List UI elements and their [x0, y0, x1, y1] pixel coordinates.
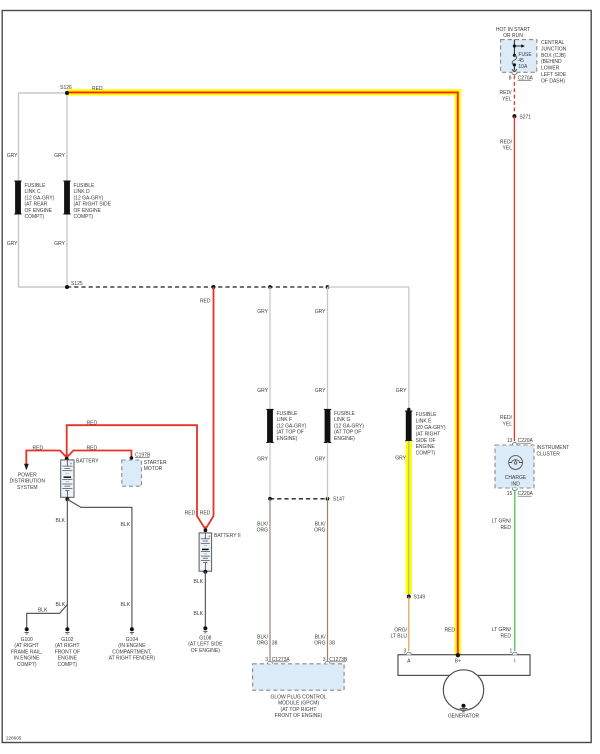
generator ground: [448, 704, 480, 720]
fusible link D: [63, 181, 111, 220]
svg-text:POWER: POWER: [18, 472, 37, 478]
svg-text:DISTRIBUTION: DISTRIBUTION: [10, 479, 46, 485]
wire RED: bus splice to Battery II: [200, 285, 216, 529]
charge indicator (CHARGE IND): [505, 456, 527, 488]
splice S126: [60, 85, 72, 95]
svg-text:G100: G100: [21, 637, 33, 643]
svg-text:S149: S149: [414, 595, 426, 601]
svg-text:JUNCTION: JUNCTION: [541, 46, 567, 52]
svg-text:ORG: ORG: [257, 528, 269, 534]
wire GRY: S126 loop through Fusible Link C: [7, 93, 67, 287]
svg-text:(AT RIGHT: (AT RIGHT: [55, 643, 80, 649]
svg-text:YEL: YEL: [503, 146, 513, 152]
svg-text:RED: RED: [185, 510, 196, 516]
svg-text:(20 GA-GRY): (20 GA-GRY): [416, 425, 446, 431]
svg-text:FUSE: FUSE: [518, 52, 532, 58]
svg-text:(AT TOP RIGHT: (AT TOP RIGHT: [281, 707, 317, 713]
svg-text:13: 13: [507, 438, 513, 444]
svg-text:BLK: BLK: [194, 579, 204, 585]
svg-text:SYSTEM: SYSTEM: [17, 485, 38, 491]
svg-text:(12 GA-GRY): (12 GA-GRY): [277, 423, 307, 429]
svg-text:G102: G102: [61, 637, 73, 643]
connector C1273B pin 3: [323, 657, 348, 663]
svg-text:HOT IN START: HOT IN START: [496, 27, 530, 33]
svg-text:RED: RED: [87, 420, 98, 426]
fusible link G: [324, 409, 364, 442]
svg-text:15: 15: [507, 491, 513, 497]
svg-text:BLK: BLK: [194, 611, 204, 617]
svg-text:GLOW PLUG CONTROL: GLOW PLUG CONTROL: [270, 694, 326, 700]
generator box: [398, 655, 530, 676]
svg-text:BLK: BLK: [56, 602, 66, 608]
battery B2 (Battery II): [199, 526, 241, 571]
wire RED: power distribution arrow to battery and starter C197B: [24, 445, 131, 470]
svg-text:RED: RED: [33, 445, 44, 451]
glow plug control module (GPCM): [253, 661, 345, 719]
connector C1273A pin 3: [265, 657, 290, 663]
svg-text:GENERATOR: GENERATOR: [448, 714, 480, 720]
svg-text:LT BLU: LT BLU: [391, 634, 408, 640]
svg-text:GRY: GRY: [396, 388, 407, 394]
svg-text:BLK/: BLK/: [257, 521, 268, 527]
svg-text:(AT TOP OF: (AT TOP OF: [277, 430, 304, 436]
wire BLK/ORG: S147 to GPCM C1273A: [257, 499, 278, 662]
wire GRY: link F to S147: [257, 443, 270, 499]
svg-text:GRY: GRY: [315, 457, 326, 463]
svg-text:LINK F: LINK F: [277, 417, 293, 423]
svg-text:BLK: BLK: [121, 522, 131, 528]
svg-text:GRY: GRY: [315, 309, 326, 315]
wire GRY: S126 to S125 through Fusible Link D: [54, 93, 67, 287]
svg-text:IND: IND: [511, 481, 520, 487]
svg-text:S125: S125: [71, 281, 83, 287]
svg-text:STARTER: STARTER: [144, 460, 167, 466]
wire RED/YEL: S271 to instrument cluster C220A: [500, 116, 514, 441]
svg-text:FUSIBLE: FUSIBLE: [334, 411, 356, 417]
svg-text:OF ENGINE: OF ENGINE: [25, 208, 53, 214]
connector C220A pin 15: [507, 488, 534, 497]
generator: [443, 670, 483, 710]
svg-text:SIDE OF: SIDE OF: [416, 438, 436, 444]
svg-text:B+: B+: [455, 659, 461, 665]
svg-text:LINK E: LINK E: [416, 419, 433, 425]
connector pin 3 at generator A: [404, 648, 412, 654]
svg-text:BOX (CJB): BOX (CJB): [541, 53, 566, 59]
ground G100: [11, 627, 42, 668]
battery B2 negative junction: [203, 570, 207, 574]
svg-text:LOWER: LOWER: [541, 66, 560, 72]
svg-text:RED: RED: [200, 298, 211, 304]
svg-text:8: 8: [509, 76, 512, 82]
svg-text:(BEHIND: (BEHIND: [541, 59, 562, 65]
wire GRY: bus to Fusible Link F: [257, 285, 272, 409]
connector pin 1 at generator I: [510, 648, 518, 654]
wire RED/YEL: C270A to S271 (dashed): [500, 76, 515, 117]
svg-text:FRONT OF: FRONT OF: [55, 649, 80, 655]
svg-text:(12 GA-GRY): (12 GA-GRY): [25, 195, 55, 201]
svg-text:FRAME RAIL,: FRAME RAIL,: [11, 649, 42, 655]
power distribution system: [10, 472, 46, 491]
svg-text:GRY: GRY: [257, 388, 268, 394]
generator B+ junction: [456, 653, 460, 657]
svg-text:GRY: GRY: [395, 456, 406, 462]
svg-text:OR RUN: OR RUN: [503, 33, 523, 39]
svg-text:CHARGE: CHARGE: [505, 475, 527, 481]
wire LT GRN/RED: instrument cluster to generator I: [492, 491, 515, 651]
svg-text:RED: RED: [444, 628, 455, 634]
fusible link E: [405, 411, 446, 457]
connector C197B: [130, 452, 151, 459]
fusible link C: [14, 181, 55, 220]
svg-text:S126: S126: [60, 85, 72, 91]
ground G108: [188, 626, 223, 654]
svg-text:ORG: ORG: [314, 528, 326, 534]
starter motor: [122, 460, 167, 486]
svg-text:LEFT SIDE: LEFT SIDE: [541, 72, 567, 78]
svg-text:ENGINE: ENGINE: [416, 444, 436, 450]
svg-text:RED: RED: [500, 525, 511, 531]
splice S149: [407, 595, 426, 601]
svg-text:(AT TOP OF: (AT TOP OF: [334, 430, 361, 436]
svg-text:BLK/: BLK/: [315, 634, 326, 640]
svg-text:FUSIBLE: FUSIBLE: [277, 411, 299, 417]
svg-text:YEL: YEL: [503, 421, 513, 427]
svg-text:I: I: [514, 659, 515, 665]
svg-text:OF DASH): OF DASH): [541, 78, 565, 84]
wire GRY: bus to Fusible Link G: [315, 285, 330, 409]
fuse F45 10A: [512, 40, 532, 72]
wire GRY: link G to S147: [315, 443, 328, 499]
svg-text:COMPARTMENT,: COMPARTMENT,: [112, 649, 152, 655]
svg-text:LT GRN/: LT GRN/: [492, 519, 512, 525]
svg-text:G104: G104: [126, 637, 138, 643]
ground G104: [109, 627, 156, 661]
svg-text:RED/: RED/: [500, 139, 513, 145]
svg-text:ENGINE: ENGINE: [58, 656, 78, 662]
battery B1 negative junction: [65, 497, 69, 501]
svg-text:BLK: BLK: [38, 607, 48, 613]
svg-text:38: 38: [272, 641, 278, 647]
svg-text:BLK/: BLK/: [257, 634, 268, 640]
svg-text:GRY: GRY: [257, 309, 268, 315]
svg-text:OF ENGINE): OF ENGINE): [191, 648, 221, 654]
svg-text:COMPT): COMPT): [74, 214, 94, 220]
svg-text:G108: G108: [199, 636, 211, 642]
central junction box (CJB): [501, 40, 567, 85]
battery B1: [61, 455, 100, 498]
svg-text:ENGINE): ENGINE): [277, 436, 298, 442]
connector C270A pin 8: [509, 72, 534, 81]
instrument cluster: [495, 445, 569, 488]
svg-text:S271: S271: [519, 114, 531, 120]
wire RED: battery feed to power distribution and Battery II: [67, 420, 206, 529]
svg-text:(12 GA-GRY): (12 GA-GRY): [334, 423, 364, 429]
svg-text:COMPT): COMPT): [25, 214, 45, 220]
splice S271: [512, 114, 531, 120]
svg-text:INSTRUMENT: INSTRUMENT: [537, 445, 570, 451]
svg-text:(AT RIGHT SIDE: (AT RIGHT SIDE: [74, 202, 112, 208]
svg-text:FUSIBLE: FUSIBLE: [416, 412, 438, 418]
svg-text:OF ENGINE: OF ENGINE: [74, 208, 102, 214]
svg-text:BLK: BLK: [56, 518, 66, 524]
svg-text:(AT REAR: (AT REAR: [25, 202, 48, 208]
svg-text:RED: RED: [87, 445, 98, 451]
svg-text:ORG: ORG: [257, 641, 269, 647]
svg-text:(12 GA-GRY): (12 GA-GRY): [74, 195, 104, 201]
svg-text:GRY: GRY: [54, 153, 65, 159]
svg-text:GRY: GRY: [54, 241, 65, 247]
svg-text:BLK/: BLK/: [315, 521, 326, 527]
wire RED (highlighted): S126 to generator B+: [67, 86, 458, 655]
svg-text:38: 38: [329, 641, 335, 647]
wire BLK: battery to G104: [67, 499, 132, 627]
svg-text:1: 1: [510, 648, 513, 654]
svg-text:45: 45: [518, 58, 524, 64]
splice S125 and dashed bus: [65, 281, 328, 289]
wire BLK: Battery II to G108: [194, 572, 206, 627]
svg-text:LINK G: LINK G: [334, 417, 351, 423]
svg-text:AT RIGHT FENDER): AT RIGHT FENDER): [109, 656, 156, 662]
svg-text:YEL: YEL: [502, 96, 512, 102]
svg-text:228605: 228605: [6, 736, 22, 741]
splice S147: [268, 497, 345, 503]
svg-text:LINK C: LINK C: [25, 189, 42, 195]
svg-text:(AT RIGHT: (AT RIGHT: [14, 643, 39, 649]
svg-text:COMPT): COMPT): [416, 451, 436, 457]
svg-text:10A: 10A: [518, 64, 528, 70]
svg-text:CLUSTER: CLUSTER: [537, 451, 561, 457]
svg-text:COMPT): COMPT): [57, 662, 77, 668]
wire BLK/ORG: S147 to GPCM C1273B: [314, 499, 335, 662]
svg-text:ORG/: ORG/: [394, 627, 407, 633]
svg-text:GRY: GRY: [315, 388, 326, 394]
svg-text:(AT LEFT SIDE: (AT LEFT SIDE: [188, 642, 223, 648]
svg-text:BATTERY II: BATTERY II: [214, 533, 241, 539]
svg-text:MOTOR: MOTOR: [144, 466, 163, 472]
svg-text:S147: S147: [333, 497, 345, 503]
svg-text:IN ENGINE: IN ENGINE: [14, 656, 40, 662]
svg-text:GRY: GRY: [7, 153, 18, 159]
svg-text:(AT RIGHT: (AT RIGHT: [416, 431, 441, 437]
svg-text:FRONT OF ENGINE): FRONT OF ENGINE): [275, 713, 323, 719]
wire ORG/LT BLU: S149 to generator A: [391, 597, 409, 652]
svg-text:BLK: BLK: [121, 602, 131, 608]
svg-text:GRY: GRY: [257, 457, 268, 463]
svg-text:RED: RED: [500, 634, 511, 640]
svg-text:(IN ENGINE: (IN ENGINE: [118, 643, 146, 649]
svg-text:BATTERY: BATTERY: [76, 459, 99, 465]
svg-text:FUSIBLE: FUSIBLE: [25, 183, 47, 189]
svg-text:LT GRN/: LT GRN/: [492, 627, 512, 633]
ground G102: [55, 627, 80, 668]
svg-text:MODULE (GPCM): MODULE (GPCM): [278, 701, 319, 707]
svg-text:COMPT): COMPT): [17, 662, 37, 668]
wire GRY: bus to Fusible Link E: [328, 287, 411, 411]
svg-text:RED/: RED/: [500, 90, 513, 96]
svg-text:FUSIBLE: FUSIBLE: [74, 183, 96, 189]
svg-text:RED: RED: [200, 510, 211, 516]
header HOT IN START OR RUN: [496, 27, 530, 39]
wire BLK: battery to G100 / G102: [27, 499, 68, 627]
fusible link F: [266, 409, 306, 442]
svg-text:CENTRAL: CENTRAL: [541, 40, 565, 46]
svg-text:RED/: RED/: [500, 415, 513, 421]
svg-text:LINK D: LINK D: [74, 189, 91, 195]
svg-text:RED: RED: [92, 86, 103, 92]
connector C220A pin 13: [507, 438, 534, 445]
svg-text:GRY: GRY: [7, 241, 18, 247]
wire GRY (highlighted): link E to S149: [395, 441, 409, 597]
svg-text:ENGINE): ENGINE): [334, 436, 355, 442]
svg-text:ORG: ORG: [314, 641, 326, 647]
svg-text:3: 3: [404, 648, 407, 654]
